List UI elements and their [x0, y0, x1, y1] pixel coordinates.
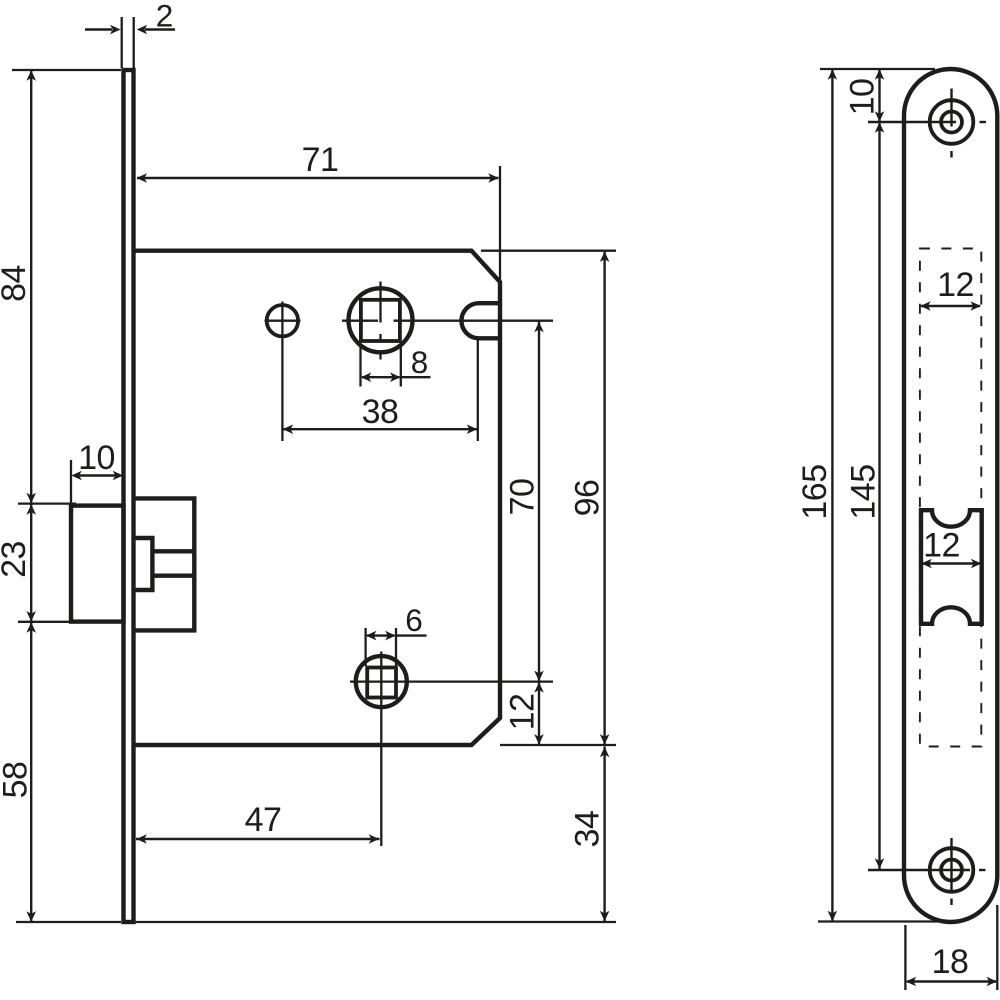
- dim 23: [30, 504, 32, 622]
- svg-text:165: 165: [796, 464, 834, 519]
- faceplate side view: [124, 70, 134, 922]
- dim 96: [603, 252, 605, 745]
- svg-text:23: 23: [0, 541, 33, 578]
- svg-text:47: 47: [245, 801, 282, 839]
- bottom screw hole centerlines: [868, 869, 970, 871]
- dashed cutout rect: [920, 249, 981, 747]
- lock body outline: [135, 251, 500, 745]
- dim 8: [359, 344, 361, 387]
- dim 18: [904, 925, 906, 990]
- dim 58: [30, 622, 32, 922]
- dim 47: [136, 838, 380, 840]
- svg-text:2: 2: [156, 0, 174, 34]
- faceplate front view: [904, 69, 997, 922]
- svg-text:12: 12: [923, 527, 960, 565]
- latch cutout: [921, 510, 982, 624]
- svg-text:71: 71: [302, 141, 339, 179]
- svg-text:12: 12: [937, 266, 974, 304]
- dim 12 left view: [538, 682, 540, 745]
- latch tail rect: [135, 538, 152, 590]
- dim 84: [30, 70, 32, 503]
- small hole: [267, 305, 298, 336]
- dim 10 right: [878, 69, 880, 122]
- svg-text:10: 10: [844, 79, 882, 116]
- slot at right edge: [461, 303, 500, 338]
- dim 34: [603, 747, 605, 922]
- top screw hole centerlines: [868, 121, 956, 123]
- bottom hole centerlines: [380, 652, 382, 847]
- dim 34 / 58 bottom extension line: [136, 921, 617, 923]
- svg-text:96: 96: [569, 480, 607, 517]
- svg-text:18: 18: [932, 943, 969, 981]
- top screw hole: [930, 100, 974, 144]
- dim 70: [538, 322, 540, 682]
- dim 6: [364, 628, 366, 666]
- svg-text:12: 12: [504, 694, 542, 731]
- dim 10 latch: [70, 460, 72, 504]
- svg-text:70: 70: [504, 479, 542, 516]
- bottom hole: [356, 656, 407, 707]
- latch inner block: [135, 498, 194, 630]
- dim 145: [878, 122, 880, 869]
- dim 12 cutout: [922, 562, 981, 564]
- right view ext lines: [820, 68, 935, 70]
- small hole centerlines: [281, 302, 283, 442]
- latch bolt protruding: [71, 506, 124, 622]
- svg-text:38: 38: [362, 393, 399, 431]
- svg-text:84: 84: [0, 265, 33, 302]
- bottom square: [367, 668, 396, 698]
- dim 2 arrows: [85, 28, 112, 30]
- dim 12 top right: [921, 305, 980, 307]
- bottom screw hole: [930, 848, 974, 892]
- svg-text:58: 58: [0, 762, 35, 799]
- spindle square: [361, 300, 400, 341]
- dim 165: [831, 69, 833, 922]
- dim 38: [283, 428, 478, 430]
- svg-text:8: 8: [411, 344, 429, 380]
- dim 2 ext lines: [121, 17, 123, 68]
- dim 71: [137, 177, 499, 179]
- latch stem lines: [152, 549, 194, 553]
- svg-text:145: 145: [845, 464, 883, 519]
- svg-text:6: 6: [405, 602, 423, 638]
- spindle hole: [349, 288, 413, 352]
- svg-text:10: 10: [78, 439, 115, 477]
- svg-text:34: 34: [569, 811, 607, 848]
- spindle centerlines: [379, 282, 381, 323]
